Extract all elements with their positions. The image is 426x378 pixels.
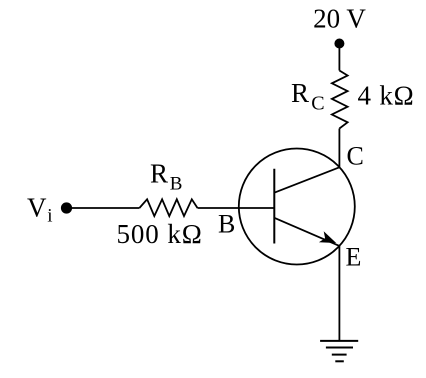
svg-text:C: C [347, 142, 364, 171]
svg-text:V: V [27, 193, 47, 223]
transistor Q1 (NPN) [239, 149, 355, 265]
wire input terminal to RB [67, 207, 140, 209]
svg-text:i: i [47, 206, 52, 227]
svg-text:R: R [150, 159, 168, 189]
wire RB to base node B [198, 207, 275, 209]
label RB [150, 159, 182, 195]
svg-text:500 kΩ: 500 kΩ [117, 219, 203, 249]
node 20V supply terminal [334, 39, 344, 49]
svg-text:C: C [311, 93, 324, 115]
wire RC to supply node [338, 44, 340, 71]
ground [320, 341, 358, 361]
svg-text:20 V: 20 V [313, 3, 366, 33]
resistor RC [332, 71, 348, 129]
wire emitter to ground [338, 246, 340, 341]
svg-text:E: E [346, 243, 362, 272]
svg-text:4 kΩ: 4 kΩ [358, 81, 415, 111]
node Vi input terminal [61, 202, 72, 213]
wire collector to RC [338, 129, 340, 168]
label Vi [27, 193, 53, 227]
label RC [291, 78, 325, 115]
svg-text:B: B [218, 210, 235, 239]
svg-text:B: B [170, 174, 183, 195]
resistor RB [139, 199, 197, 216]
svg-text:R: R [291, 78, 309, 108]
